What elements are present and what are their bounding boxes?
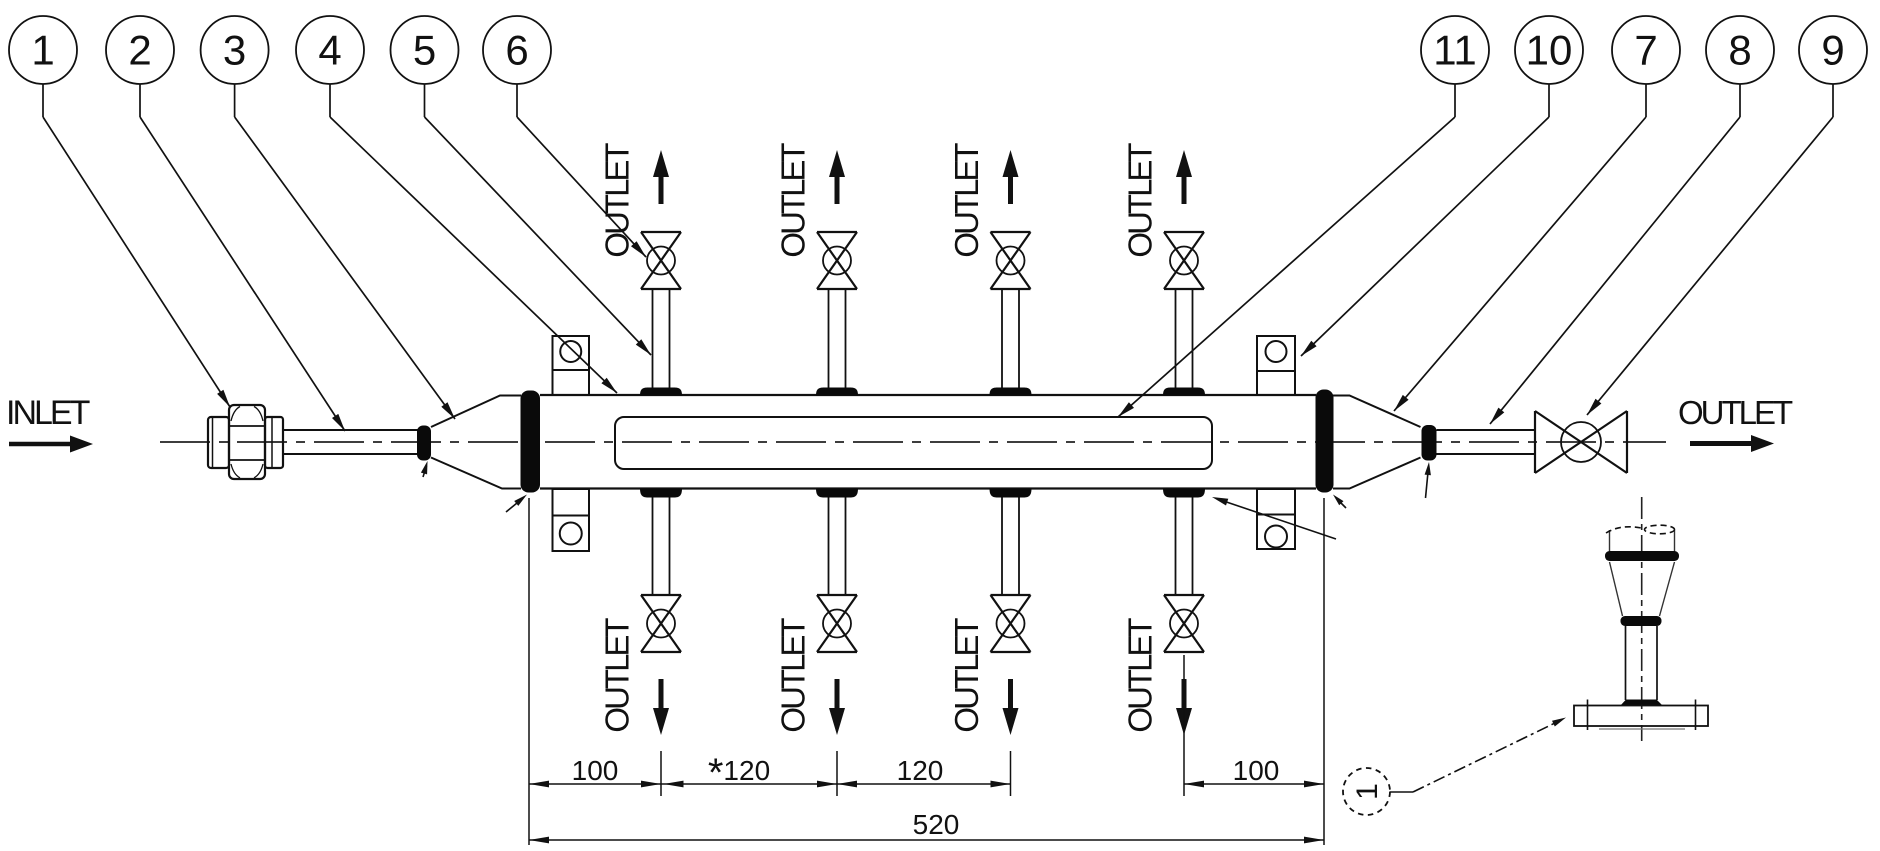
- leader line to outlet pipe (item 8): [1490, 117, 1740, 424]
- extension tick outlet 3: [1010, 751, 1012, 796]
- leader line to mounting bracket (item 10): [1301, 117, 1549, 356]
- leader line to outlet ball valve (item 9): [1587, 117, 1833, 415]
- svg-text:1: 1: [1351, 783, 1384, 800]
- weld arrow at left end cap: [506, 495, 527, 513]
- left end cap weld band: [521, 391, 541, 493]
- detail base weld: [1620, 700, 1663, 707]
- leader line to outlet tube (item 5): [425, 117, 652, 355]
- balloon 9: [1799, 16, 1867, 117]
- mounting bracket top-left: [553, 336, 590, 395]
- left reducer cone: [431, 396, 521, 489]
- detail callout balloon 1: [1343, 768, 1390, 815]
- outlet ball valve (item 9): [1535, 411, 1627, 473]
- svg-text:7: 7: [1634, 27, 1657, 74]
- balloon 10: [1515, 16, 1583, 117]
- svg-text:120: 120: [897, 755, 944, 786]
- outlet flow arrow right: [1690, 435, 1774, 452]
- top outlet assembly 4 (tube, weld collar, valve, OUTLET label, flow arrow): [1122, 143, 1206, 396]
- extension line left end cap: [528, 498, 530, 845]
- svg-text:1: 1: [31, 27, 54, 74]
- top outlet assembly 3 (tube, weld collar, valve, OUTLET label, flow arrow): [948, 143, 1032, 396]
- balloon 4: [296, 16, 364, 117]
- union nut hex body: [229, 405, 265, 479]
- union nut left cap: [208, 417, 229, 468]
- union nut sleeve: [265, 417, 283, 468]
- detail break line (dashed): [1606, 525, 1675, 534]
- svg-text:10: 10: [1526, 27, 1573, 74]
- detail weld band 2: [1621, 616, 1662, 626]
- detail shadow line: [1599, 728, 1685, 730]
- weld ferrule left: [417, 426, 431, 461]
- svg-text:2: 2: [128, 27, 151, 74]
- dimension 120: [837, 755, 1011, 787]
- detail weld band 1: [1605, 551, 1679, 561]
- dimension *120: [664, 751, 838, 795]
- weld arrow at right end cap: [1333, 495, 1346, 509]
- bottom outlet assembly 2 (tube, weld collar, valve, OUTLET label, flow arrow): [775, 489, 859, 736]
- weld arrow at right ferrule: [1425, 462, 1431, 498]
- balloon 1: [9, 16, 77, 117]
- extension tick outlet 2: [836, 751, 838, 796]
- balloon 5: [391, 16, 459, 117]
- balloon 8: [1706, 16, 1774, 117]
- dimension 100 (left): [529, 755, 664, 787]
- manifold shell: [540, 395, 1316, 489]
- svg-text:3: 3: [223, 27, 246, 74]
- detail flange: [1574, 706, 1708, 727]
- outlet pipe right: [1437, 430, 1536, 454]
- mounting bracket bottom-right: [1257, 489, 1295, 549]
- right end cap weld band: [1316, 390, 1334, 493]
- svg-text:OUTLET: OUTLET: [1678, 394, 1793, 431]
- mounting bracket bottom-left: [553, 489, 590, 551]
- detail flange bolt lines: [1588, 700, 1696, 731]
- extension line outlet 4: [1183, 655, 1185, 796]
- mounting bracket top-right: [1257, 336, 1295, 395]
- svg-text:8: 8: [1728, 27, 1751, 74]
- leader line to right reducer cone (item 7): [1394, 117, 1646, 411]
- leader to 4th bottom weld collar: [1212, 497, 1336, 539]
- inlet pipe: [283, 430, 418, 454]
- svg-text:5: 5: [413, 27, 436, 74]
- balloon 11: [1421, 16, 1489, 117]
- balloon 3: [201, 16, 269, 117]
- svg-text:520: 520: [913, 809, 960, 840]
- balloon 6: [483, 16, 551, 117]
- svg-text:*120: *120: [708, 751, 770, 795]
- detail tube: [1626, 626, 1658, 700]
- svg-text:9: 9: [1821, 27, 1844, 74]
- leader line to inlet pipe (item 2): [140, 117, 345, 431]
- balloon 2: [106, 16, 174, 117]
- svg-text:6: 6: [505, 27, 528, 74]
- svg-text:100: 100: [1233, 755, 1280, 786]
- svg-text:11: 11: [1433, 27, 1477, 74]
- bottom outlet assembly 1 (tube, weld collar, valve, OUTLET label, flow arrow): [599, 489, 683, 736]
- detail callout leader: [1390, 718, 1566, 793]
- svg-text:100: 100: [572, 755, 619, 786]
- dimension 520 overall: [529, 809, 1324, 843]
- centerline: [160, 441, 1666, 443]
- inlet flow arrow: [9, 436, 93, 453]
- detail cone: [1610, 562, 1675, 616]
- detail cylinder walls: [1610, 530, 1675, 552]
- inner distribution tube (item 11): [615, 417, 1212, 469]
- detail view centerline: [1641, 497, 1643, 741]
- weld arrow at left ferrule: [421, 461, 428, 477]
- leader line to left reducer cone (item 3): [235, 117, 455, 419]
- leader line to outlet valve (item 6): [517, 117, 646, 257]
- bottom outlet assembly 3 (tube, weld collar, valve, OUTLET label, flow arrow): [948, 489, 1032, 736]
- bottom outlet assembly 4 (tube, weld collar, valve, OUTLET label, flow arrow): [1122, 489, 1206, 736]
- right reducer cone: [1333, 396, 1421, 489]
- dimension 100 (right): [1184, 755, 1324, 787]
- top outlet assembly 2 (tube, weld collar, valve, OUTLET label, flow arrow): [775, 143, 859, 396]
- balloon 7: [1612, 16, 1680, 117]
- leader line to union nut (item 1): [43, 117, 230, 407]
- svg-text:INLET: INLET: [6, 394, 90, 432]
- leader line to manifold shell (item 4): [330, 117, 617, 393]
- leader line to inner tube (item 11): [1118, 117, 1455, 417]
- svg-text:4: 4: [318, 27, 341, 74]
- extension line right end cap: [1323, 498, 1325, 845]
- weld ferrule right: [1422, 425, 1437, 461]
- top outlet assembly 1 (tube, weld collar, valve, OUTLET label, flow arrow): [599, 143, 683, 396]
- extension tick outlet 1: [660, 751, 662, 796]
